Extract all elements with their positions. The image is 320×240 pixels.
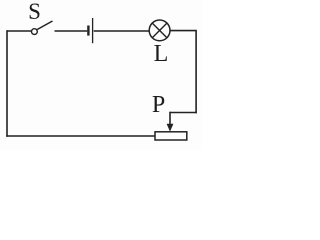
svg-text:P: P xyxy=(152,92,165,118)
lamp L circle xyxy=(149,20,170,41)
wire lamp-to-corner xyxy=(170,30,196,32)
wire left vertical xyxy=(6,30,8,137)
svg-text:S: S xyxy=(28,0,41,24)
wire to wiper xyxy=(170,112,197,114)
wire switch-to-battery xyxy=(55,30,88,32)
wire right vertical xyxy=(195,30,197,113)
rheostat P body xyxy=(155,132,187,140)
switch S blade xyxy=(37,21,52,30)
lamp L cross diagonal 1 xyxy=(152,23,167,38)
switch S pivot circle xyxy=(32,29,38,35)
wire top-left segment xyxy=(7,30,32,32)
rheostat wiper arrowhead xyxy=(167,124,174,132)
wire bottom segment xyxy=(6,135,155,137)
battery negative plate (short thick) xyxy=(87,26,89,36)
wire battery-to-lamp xyxy=(94,30,150,32)
svg-text:L: L xyxy=(154,41,169,67)
battery positive plate (tall thin) xyxy=(92,18,94,43)
lamp L cross diagonal 2 xyxy=(152,23,167,38)
rheostat wiper arrow shaft xyxy=(169,112,171,126)
